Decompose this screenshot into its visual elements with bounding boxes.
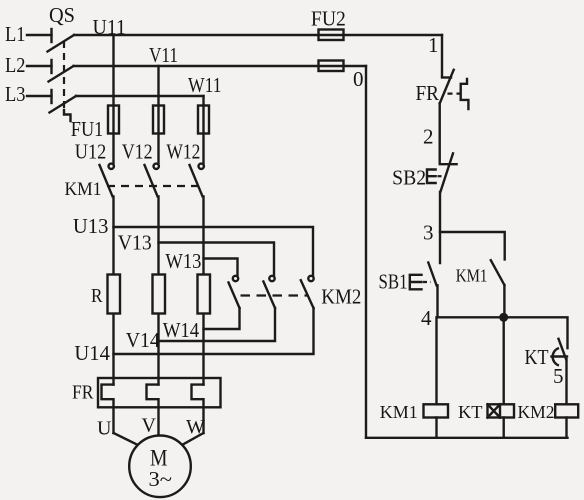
svg-text:U11: U11 xyxy=(93,15,127,39)
KT delay symbol arc xyxy=(553,348,559,366)
svg-text:L1: L1 xyxy=(5,22,26,46)
SB2 blade xyxy=(440,153,453,191)
wire U phase drop xyxy=(112,35,114,163)
wire L1 lead xyxy=(27,34,52,36)
wire node 3 xyxy=(439,192,441,263)
fuse FU2 line 0 xyxy=(319,61,344,72)
coil KT xyxy=(488,404,515,417)
wire KT contact to KM2 coil xyxy=(565,359,567,404)
svg-text:4: 4 xyxy=(421,306,432,330)
svg-text:W14: W14 xyxy=(163,318,200,342)
wire motor lead W xyxy=(182,433,204,445)
svg-text:FU1: FU1 xyxy=(71,117,104,141)
KT delay symbol bar xyxy=(552,355,568,357)
KM1 main contact U blade xyxy=(100,165,113,196)
FR control contact blade xyxy=(440,70,454,104)
svg-text:5: 5 xyxy=(553,364,564,388)
wire W11 xyxy=(76,95,204,97)
svg-text:U13: U13 xyxy=(73,214,109,238)
SB1 actuator link (dashed) xyxy=(423,281,431,283)
svg-text:2: 2 xyxy=(423,125,434,149)
wire KM2 pole 2 to V14 xyxy=(159,308,276,341)
svg-text:L2: L2 xyxy=(5,53,26,77)
svg-text:FR: FR xyxy=(72,383,94,404)
svg-text:KM2: KM2 xyxy=(518,402,555,422)
svg-text:W: W xyxy=(186,416,205,438)
svg-text:V: V xyxy=(142,415,157,437)
junction dot node 4 xyxy=(499,313,508,322)
time relay KT delayed contact blade xyxy=(559,339,567,359)
button SB2 fixed bar xyxy=(440,163,457,165)
resistor R phase W xyxy=(198,275,211,314)
svg-text:U: U xyxy=(97,418,112,440)
svg-text:1: 1 xyxy=(428,33,439,57)
thermal relay FR heater box xyxy=(98,378,221,407)
svg-text:KM1: KM1 xyxy=(65,179,102,200)
wire W13 to KM2 pole 1 xyxy=(204,259,238,276)
FR heater element V xyxy=(147,385,159,436)
svg-text:KT: KT xyxy=(525,345,549,369)
wire V column below KM1 xyxy=(157,197,159,385)
wire W phase drop xyxy=(202,96,204,163)
svg-text:0: 0 xyxy=(353,67,364,91)
wire SB1 to node 4 xyxy=(436,285,438,317)
wire node 2 xyxy=(439,103,441,163)
svg-text:SB2: SB2 xyxy=(392,166,426,190)
svg-text:W11: W11 xyxy=(188,73,222,97)
wire U13 to KM2 pole 3 xyxy=(114,227,314,276)
wire KM1 coil to bus xyxy=(435,418,437,438)
wire KM2 pole 1 to W14 xyxy=(204,308,240,329)
wire motor lead U xyxy=(114,433,139,445)
fuse FU1 phase U xyxy=(108,106,119,134)
svg-text:KM1: KM1 xyxy=(380,402,418,422)
wire KM2 pole 3 to U14 xyxy=(114,308,314,354)
QS pole 2 fixed contact xyxy=(50,60,52,73)
wire KT coil branch xyxy=(503,317,505,404)
wire control feed from line 1 xyxy=(441,35,443,76)
wire U11 xyxy=(74,34,442,36)
contactor KM1 aux contact blade xyxy=(491,260,505,285)
svg-text:FU2: FU2 xyxy=(311,7,346,31)
resistor R phase U xyxy=(108,275,121,314)
wire L3 lead xyxy=(27,95,52,97)
svg-text:W13: W13 xyxy=(165,249,201,273)
wire branch node 3 to KM1 aux xyxy=(440,232,505,259)
fuse FU1 phase W xyxy=(198,106,209,134)
FR release link (dashed) xyxy=(448,92,460,94)
FR thermal release symbol xyxy=(461,79,469,109)
wire KT coil to bus xyxy=(503,418,505,438)
svg-text:FR: FR xyxy=(416,81,440,105)
contactor KM1 main contact W terminal xyxy=(199,164,204,169)
KM2 pole 2 blade xyxy=(263,282,275,309)
QS pole 2 blade xyxy=(49,66,74,82)
coil KM2 xyxy=(555,404,578,417)
wire V13 to KM2 pole 2 xyxy=(159,243,275,276)
FR control contact fixed bar xyxy=(442,76,451,78)
wire node 4 xyxy=(438,317,568,348)
contactor KM2 pole 2 terminal xyxy=(269,276,274,281)
svg-text:V11: V11 xyxy=(149,43,178,67)
svg-text:QS: QS xyxy=(49,3,75,27)
wire V11 xyxy=(74,65,367,67)
contactor KM2 pole 3 terminal xyxy=(308,276,313,281)
QS linkage (dashed) xyxy=(63,41,65,111)
wire line 0 rail xyxy=(365,66,367,438)
coil KM1 xyxy=(424,404,449,417)
button SB1 blade xyxy=(428,263,436,286)
wire KM1 coil branch xyxy=(435,317,437,404)
svg-text:3: 3 xyxy=(423,221,434,245)
QS pole 3 fixed contact xyxy=(50,90,52,103)
svg-text:V13: V13 xyxy=(118,231,152,255)
fuse FU2 line 1 xyxy=(319,30,344,41)
svg-text:3~: 3~ xyxy=(149,467,173,491)
svg-text:R: R xyxy=(91,285,103,307)
KM2 pole 1 blade xyxy=(229,283,240,309)
svg-text:L3: L3 xyxy=(5,82,26,106)
wire KM2 coil to bus xyxy=(565,418,567,438)
disconnect switch QS pole 1 fixed contact xyxy=(50,29,52,42)
contactor KM2 pole 1 terminal xyxy=(233,276,238,281)
SB1 actuator xyxy=(410,275,422,290)
contactor KM1 main contact V terminal xyxy=(154,164,159,169)
QS handle xyxy=(64,110,71,121)
svg-text:V12: V12 xyxy=(122,140,153,164)
KM1 linkage (dashed) xyxy=(107,185,203,187)
disconnect switch QS pole 1 blade xyxy=(48,35,75,52)
svg-text:KT: KT xyxy=(458,402,483,422)
svg-text:KM1: KM1 xyxy=(456,266,488,286)
svg-text:U12: U12 xyxy=(75,140,107,164)
KM2 pole 3 blade xyxy=(301,280,314,308)
wire bottom bus xyxy=(366,437,568,439)
svg-text:V14: V14 xyxy=(126,328,160,352)
svg-text:SB1: SB1 xyxy=(379,270,408,294)
KT coil divider and X xyxy=(488,404,501,417)
SB2 actuator xyxy=(427,170,436,184)
KM2 linkage (dashed) xyxy=(241,294,309,296)
QS pole 3 blade xyxy=(50,96,77,113)
wire U column below KM1 xyxy=(112,197,114,385)
SB2 actuator link (dashed) xyxy=(438,175,445,177)
KM1 main contact V blade xyxy=(145,165,158,196)
wire W column below KM1 xyxy=(202,197,204,385)
FR heater element U xyxy=(102,385,114,433)
svg-text:U14: U14 xyxy=(74,341,110,365)
motor M xyxy=(129,436,191,498)
wire KM1 aux to node 4 xyxy=(503,285,505,317)
wire V phase drop xyxy=(157,66,159,163)
resistor R phase V xyxy=(153,275,166,314)
FR heater element W xyxy=(192,385,204,433)
svg-text:KM2: KM2 xyxy=(321,285,361,309)
KM1 main contact W blade xyxy=(190,165,203,196)
contactor KM1 main contact U terminal xyxy=(109,164,114,169)
svg-text:W12: W12 xyxy=(166,140,200,164)
wire L2 lead xyxy=(27,65,52,67)
fuse FU1 phase V xyxy=(153,106,164,134)
